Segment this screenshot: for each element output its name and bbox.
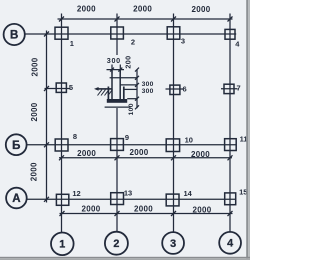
column 2 [111,27,124,39]
foundation detail: bedding line [105,106,131,108]
svg-text:2000: 2000 [193,206,212,215]
foundation detail: 300 dim line [107,65,125,74]
centerline tick through column 7 [221,88,238,90]
grid bubble В [4,24,25,45]
svg-text:А: А [12,193,20,205]
column 14 [166,194,179,206]
grid bubble 1 [51,233,74,256]
column 5 [56,83,66,92]
foundation detail: level line right [120,84,137,86]
svg-text:14: 14 [184,189,193,198]
svg-text:2: 2 [113,238,119,250]
svg-text:6: 6 [183,85,187,94]
axis line 2 (vertical, lower segment) [116,108,118,232]
page edge shadow right [246,0,248,260]
axis line 2 (vertical, upper segment) [116,14,118,56]
svg-text:2000: 2000 [77,4,96,13]
svg-text:3: 3 [170,238,176,250]
foundation detail: ground line right [124,88,137,90]
axis line 4 (vertical) [229,14,231,232]
column 8 [55,139,68,151]
svg-text:2000: 2000 [191,150,210,159]
column 15 [225,193,236,205]
grid bubble Б [6,134,27,155]
svg-text:7: 7 [237,84,241,93]
svg-text:1: 1 [70,39,74,48]
svg-text:13: 13 [124,189,132,198]
axis row Б (horizontal) [27,144,237,146]
left dimension line [44,31,49,203]
svg-text:5: 5 [69,83,73,92]
svg-text:1: 1 [59,239,65,251]
text layer [10,4,248,250]
centerline tick through column 6 [166,88,184,90]
svg-text:4: 4 [227,238,233,250]
svg-text:2000: 2000 [82,204,101,213]
column 1 [55,27,68,39]
svg-text:100: 100 [128,103,135,115]
middle dimension line (below row Б) [59,155,233,160]
grid bubble 2 [105,232,128,255]
column 9 [111,139,124,151]
svg-text:2000: 2000 [130,148,149,157]
svg-text:2: 2 [131,38,135,47]
svg-text:Б: Б [12,140,20,152]
column 6 [170,85,180,94]
foundation detail: ground arrow [94,87,99,91]
svg-text:12: 12 [72,189,80,198]
axis line 3 (vertical) [173,14,175,233]
column 10 [166,139,179,152]
axis row А (horizontal) [27,198,236,200]
top dimension line [58,17,233,22]
foundation detail: ground line left [97,88,113,90]
page edge shadow bottom [0,257,250,258]
svg-text:3: 3 [181,37,185,46]
foundation detail: joint line [110,77,137,79]
svg-text:2000: 2000 [29,162,38,181]
svg-text:10: 10 [185,136,193,145]
foundation detail: level line from footing [127,98,137,100]
grid bubble А [6,188,27,209]
foundation detail: socket left wall [107,87,109,100]
foundation detail: precast column shaft [112,70,120,101]
svg-text:4: 4 [235,40,240,49]
foundation detail: socket right wall [123,87,125,100]
column 13 [111,193,124,205]
grid bubble 4 [219,232,241,254]
svg-text:2000: 2000 [134,204,153,213]
bottom dimension line (below row А) [60,211,233,216]
svg-text:В: В [10,30,18,42]
svg-text:2000: 2000 [192,5,211,14]
svg-text:300: 300 [107,56,121,65]
centerline tick through column 5 [45,88,71,90]
column 12 [56,194,68,205]
foundation detail: ground hatch [98,90,113,96]
svg-text:300: 300 [142,88,154,95]
column 7 [224,84,234,93]
svg-text:200: 200 [124,55,133,68]
column 4 [225,29,235,39]
grid bubble 3 [162,232,184,254]
svg-text:2000: 2000 [30,57,39,76]
svg-text:300: 300 [142,81,154,88]
axis row В (horizontal) [25,33,236,35]
axis line 1 (vertical) [61,14,63,233]
svg-text:9: 9 [125,133,129,142]
svg-text:8: 8 [73,132,77,141]
svg-text:2000: 2000 [133,5,152,14]
column 11 [225,139,237,151]
svg-text:2000: 2000 [77,149,96,158]
column 3 [167,27,180,39]
foundation detail: right dimension line [135,68,139,110]
svg-text:2000: 2000 [30,102,39,121]
foundation detail: footing slab [107,99,127,103]
